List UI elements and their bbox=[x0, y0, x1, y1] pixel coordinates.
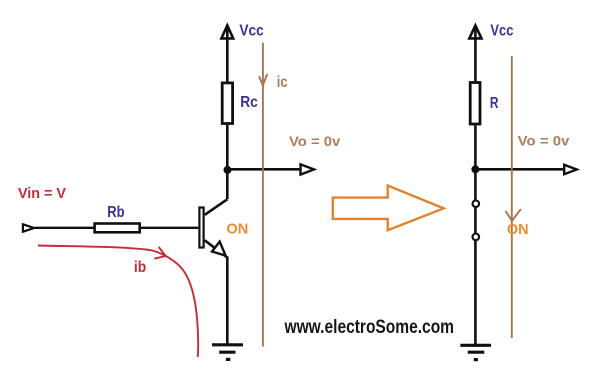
svg-text:ON: ON bbox=[507, 221, 529, 238]
svg-text:Rc: Rc bbox=[240, 94, 258, 111]
svg-text:R: R bbox=[490, 95, 499, 112]
wire Rc to collector corner bbox=[226, 125, 229, 199]
resistor Rc bbox=[222, 83, 232, 124]
svg-text:Vcc: Vcc bbox=[490, 22, 513, 39]
node collector junction dot bbox=[224, 166, 232, 174]
svg-text:Vcc: Vcc bbox=[239, 22, 264, 39]
switch terminal top (closed switch) bbox=[473, 200, 480, 207]
wire input arrow to Rb bbox=[35, 227, 94, 229]
transistor Q1 base bar bbox=[199, 208, 203, 248]
output arrow Vo (right) bbox=[564, 165, 577, 175]
current line ic (left orange) bbox=[262, 43, 264, 347]
ground symbol (right) bbox=[460, 345, 491, 359]
svg-text:Vo = 0v: Vo = 0v bbox=[289, 133, 341, 149]
svg-text:Rb: Rb bbox=[107, 204, 124, 221]
transistor Q1 emitter arrowhead bbox=[212, 242, 226, 256]
resistor R bbox=[470, 83, 480, 125]
resistor Rb bbox=[95, 224, 140, 233]
ic arrowhead bbox=[259, 74, 267, 86]
svg-text:ib: ib bbox=[134, 259, 146, 276]
switch terminal bottom (closed switch) bbox=[473, 234, 480, 241]
node junction dot (right) bbox=[471, 165, 479, 173]
transistor Q1 collector lead bbox=[205, 199, 228, 215]
svg-text:Vin = V: Vin = V bbox=[18, 186, 66, 202]
current line ON (right orange) bbox=[511, 56, 513, 338]
wire emitter to ground (left) bbox=[226, 257, 229, 345]
Vcc power arrow symbol (left) bbox=[221, 25, 233, 38]
ib arrowhead bbox=[154, 247, 165, 259]
output arrow Vo (left) bbox=[301, 164, 315, 174]
current path ib (red curve) bbox=[38, 246, 198, 358]
wire Rb to base bbox=[141, 227, 198, 229]
svg-text:ic: ic bbox=[277, 74, 288, 91]
svg-text:www.electroSome.com: www.electroSome.com bbox=[284, 316, 454, 338]
wire Vcc arrow shaft to resistor Rc bbox=[226, 25, 229, 82]
input arrow Vin bbox=[23, 224, 34, 231]
block arrow (transformation) bbox=[333, 186, 444, 231]
svg-text:ON: ON bbox=[226, 220, 248, 237]
wire Vcc arrow shaft to resistor R (right) bbox=[474, 25, 477, 82]
svg-text:Vo = 0v: Vo = 0v bbox=[518, 133, 570, 149]
ground symbol (left) bbox=[212, 345, 243, 360]
wire R to ground (right, through switch) bbox=[474, 125, 477, 344]
wire node to output arrow (right) bbox=[475, 168, 564, 171]
ON arrowhead (right) bbox=[506, 209, 521, 221]
Vcc power arrow symbol (right) bbox=[469, 25, 481, 38]
wire collector node to output arrow (left) bbox=[227, 168, 300, 171]
transistor Q1 emitter lead bbox=[205, 240, 228, 257]
